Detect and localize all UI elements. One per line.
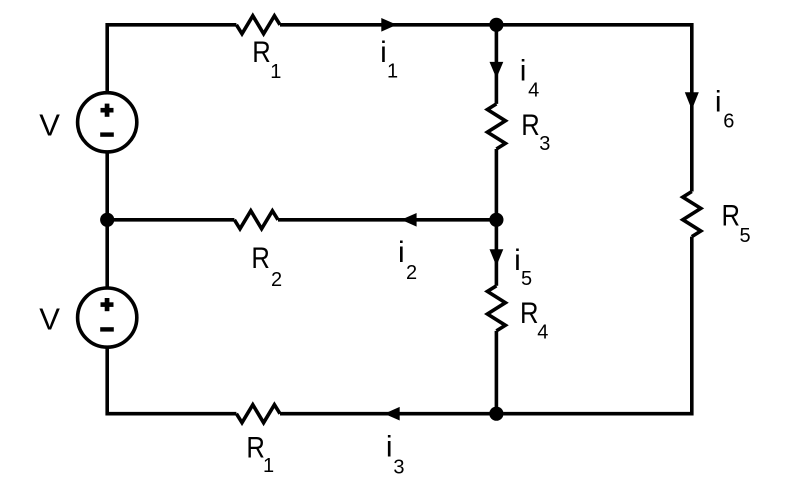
current arrow i3 (left) [384, 407, 400, 421]
svg-text:5: 5 [740, 225, 751, 247]
label i2 [398, 236, 417, 284]
wire middle rail: R4 bottom to junction D [495, 331, 499, 414]
label i6 [715, 85, 734, 132]
label R5 [722, 200, 751, 247]
resistor R4 zigzag [487, 286, 505, 331]
current arrow i4 (down) [490, 62, 504, 78]
wire left-middle: source V1 bottom through junction B to source V2 top [105, 153, 109, 288]
label i3 [386, 430, 405, 478]
label R1 (top resistor) [252, 36, 281, 83]
voltage source V2 minus sign [100, 327, 114, 331]
label R1 (bottom resistor) [246, 432, 274, 477]
current arrow i5 (down) [490, 249, 504, 266]
resistor R2 zigzag [234, 211, 278, 229]
svg-text:i: i [380, 36, 387, 69]
wire middle rail: junction C to R4 top [495, 220, 499, 286]
current arrow i6 (down) [685, 92, 699, 110]
svg-text:i: i [398, 236, 405, 269]
voltage source V1 circle [78, 93, 137, 152]
voltage source V2 circle [78, 288, 137, 347]
voltage source V2 plus sign [101, 298, 114, 311]
resistor R3 zigzag [487, 104, 505, 149]
current arrow i1 (right) [381, 18, 397, 32]
svg-text:V: V [39, 108, 60, 143]
wire middle row left: junction B to R2 left [107, 218, 234, 222]
label V (source V1) [39, 108, 60, 143]
label i4 [520, 54, 539, 101]
wire top-right: junction A to top-right corner [496, 25, 691, 192]
svg-text:3: 3 [539, 133, 550, 155]
junction node D (bottom middle) [489, 407, 503, 421]
junction node A (top middle) [489, 18, 503, 32]
svg-text:R: R [252, 36, 270, 69]
wire right-bottom: R5 bottom to bottom-right corner to junction D [503, 237, 692, 414]
svg-text:1: 1 [387, 61, 398, 83]
label R3 [521, 109, 550, 155]
label V (source V2) [39, 302, 60, 337]
svg-text:i: i [386, 430, 393, 463]
label i1 [380, 36, 398, 82]
resistor R5 zigzag [683, 192, 701, 237]
voltage source V1 minus sign [100, 132, 114, 136]
wire top-middle: R1 right to junction A [280, 23, 496, 27]
wire bottom-middle: junction D to R1 bottom right [280, 412, 496, 416]
svg-text:4: 4 [537, 322, 548, 344]
current arrow i2 (left) [401, 213, 417, 227]
svg-text:2: 2 [406, 262, 417, 284]
svg-text:i: i [514, 244, 521, 277]
resistor R1 (bottom) zigzag [236, 405, 280, 423]
voltage source V1 plus sign [101, 104, 114, 117]
wire middle row right: R2 right to junction C [278, 218, 496, 222]
label i5 [514, 244, 532, 290]
svg-text:1: 1 [263, 455, 274, 477]
svg-text:5: 5 [521, 268, 532, 290]
svg-text:2: 2 [271, 269, 282, 291]
junction node C (center) [489, 213, 503, 227]
svg-text:3: 3 [393, 457, 404, 479]
wire middle rail: junction A to R3 top [495, 25, 499, 104]
wire bottom-left: R1 bottom left to bottom-left corner to source V2 bottom [107, 348, 236, 414]
wire middle rail: R3 bottom to junction C [495, 149, 499, 220]
label R2 [251, 242, 282, 291]
resistor R1 (top) zigzag [236, 16, 280, 34]
svg-text:V: V [39, 302, 60, 337]
svg-text:4: 4 [528, 80, 539, 102]
svg-text:R: R [521, 109, 540, 142]
svg-text:1: 1 [270, 61, 281, 83]
svg-text:R: R [722, 200, 741, 233]
svg-text:i: i [715, 85, 722, 118]
wire top-left: source V1 top to top-left corner to R1 left [107, 25, 236, 92]
junction node B (left middle) [100, 213, 114, 227]
label R4 [520, 297, 548, 344]
svg-text:R: R [520, 297, 539, 330]
svg-text:i: i [520, 54, 527, 87]
svg-text:R: R [251, 242, 270, 275]
svg-text:6: 6 [723, 111, 734, 133]
